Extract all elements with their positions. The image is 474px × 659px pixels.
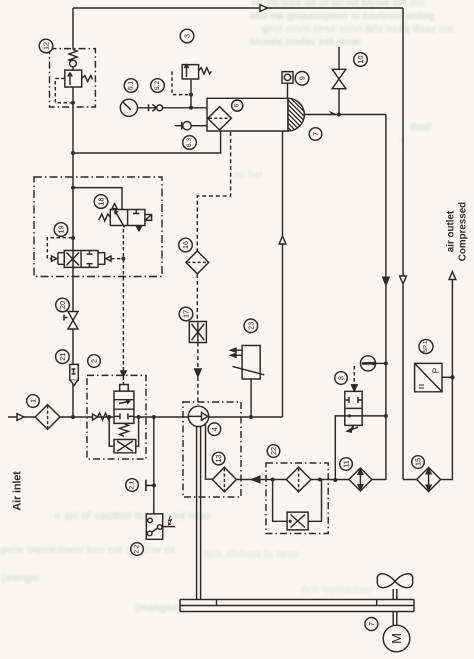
- svg-text:air outlet: air outlet: [446, 210, 457, 252]
- wire right riser x=403: [400, 8, 407, 480]
- ball: [70, 60, 77, 67]
- exhaust below: [351, 425, 358, 431]
- wire purge return y=153: [71, 131, 221, 155]
- enclosure 18/19 control block: [34, 177, 162, 277]
- check valve 6.2: [149, 104, 163, 111]
- closed position square with X: [114, 440, 136, 453]
- svg-text:16: 16: [181, 241, 190, 249]
- enclosure oil cooler 22: [266, 463, 328, 534]
- label 3: [180, 29, 194, 43]
- pilot box left: [58, 253, 64, 265]
- label 7: [309, 128, 322, 141]
- wires valve 8 ports: [333, 414, 388, 482]
- shut-off valve 20: [64, 312, 78, 330]
- svg-text:6.1: 6.1: [128, 81, 135, 90]
- relief valve R12 assembly: [50, 49, 96, 107]
- bypass restrictor of cooler: [273, 480, 322, 530]
- oil cooler circuit wire y=480: [236, 476, 386, 482]
- baseplate: [180, 600, 414, 612]
- motor shaft: [393, 612, 397, 626]
- label 17: [179, 307, 193, 321]
- label 16: [179, 238, 193, 252]
- svg-text:22: 22: [269, 447, 278, 455]
- blocked ports right square: [87, 251, 93, 268]
- wire to outlet filter 15: [403, 272, 456, 480]
- label 6.2: [151, 79, 165, 93]
- purge restrictor 17: [189, 322, 206, 343]
- seat + spring at valve 2 entry: [93, 414, 98, 420]
- svg-text:6: 6: [234, 103, 241, 107]
- label 13: [212, 452, 225, 465]
- temperature pilot 8 sensor bulb: [360, 356, 388, 371]
- label 23: [244, 319, 258, 333]
- svg-text:P: P: [432, 367, 441, 373]
- svg-text:2: 2: [90, 359, 99, 363]
- valve 19 (blow-off valve): [47, 236, 123, 267]
- compressor 4: [188, 406, 208, 426]
- oil return into compressor: [206, 424, 213, 479]
- node air inlet text: [12, 471, 24, 511]
- check valve 6.3: [175, 122, 207, 130]
- pilot wire valve18 to intake valve 2: [121, 229, 126, 384]
- main valve square: [114, 409, 134, 423]
- node 2.1 branch: [146, 417, 156, 514]
- enclosure 12: [50, 49, 96, 107]
- spring left: [99, 214, 111, 221]
- svg-text:3: 3: [183, 34, 192, 38]
- filter 1 (inlet filter): [35, 405, 60, 430]
- dryer vessel: [207, 98, 288, 131]
- spring right: [82, 76, 93, 82]
- fan: [377, 574, 412, 600]
- pressure regulator 3: [172, 64, 211, 108]
- svg-text:2.2: 2.2: [134, 544, 141, 553]
- svg-text:Compressed: Compressed: [458, 202, 469, 261]
- valve 18 (3/2 solenoid valve): [99, 204, 152, 231]
- pressure transmitter 5P.1: [415, 363, 455, 391]
- label 18: [94, 195, 108, 209]
- spring: [69, 50, 77, 62]
- label 6: [232, 100, 243, 111]
- bleed-through text from reverse page: [252, 0, 425, 9]
- svg-text:7: 7: [311, 132, 320, 136]
- svg-text:5P.1: 5P.1: [423, 341, 429, 352]
- svg-text:13: 13: [214, 455, 223, 463]
- svg-text:15: 15: [414, 458, 423, 466]
- label 6.3: [183, 136, 197, 150]
- exhaust triangle top: [112, 204, 117, 209]
- solenoid right: [145, 215, 152, 221]
- filter/drain 21: [70, 364, 79, 385]
- svg-text:4: 4: [210, 427, 219, 431]
- pilot line from valve 18: [111, 258, 123, 260]
- label 2.1: [126, 479, 139, 492]
- pressure switch 2.2: [146, 514, 175, 539]
- enclosure intake valve 2: [87, 375, 146, 459]
- top square blocked ports: [345, 397, 362, 403]
- wire riser to dryer (x=282.5): [279, 131, 286, 417]
- wire valve2 to compressor: [134, 415, 189, 419]
- label 6.1: [124, 79, 138, 93]
- label 22: [267, 445, 280, 458]
- purge wire restrictor to compressor: [195, 343, 201, 406]
- svg-text:6.2: 6.2: [154, 81, 161, 90]
- svg-text:19: 19: [57, 226, 66, 234]
- pilot cap: [120, 385, 129, 392]
- enclosure compressor unit: [183, 402, 241, 497]
- svg-text:8: 8: [337, 376, 346, 380]
- oil filter 13: [212, 467, 236, 492]
- label 5P.1: [419, 340, 433, 354]
- motor M: [383, 625, 410, 652]
- temperature sensor 9: [282, 72, 293, 99]
- wire top header from blow-off line to right side: [73, 5, 403, 12]
- purge wire from dryer (dashed): [197, 132, 230, 251]
- pilot line from x73: [47, 238, 72, 259]
- svg-text:18: 18: [97, 198, 106, 206]
- label 10: [354, 53, 368, 67]
- drive shaft compressor to baseplate: [197, 427, 201, 600]
- svg-text:21: 21: [58, 353, 67, 361]
- purge filter 16: [186, 251, 209, 274]
- actuator cylinder: [114, 391, 134, 409]
- svg-text:12: 12: [42, 42, 51, 50]
- wire inlet to valve 2: [60, 413, 114, 420]
- fan drive control 23: [231, 346, 265, 418]
- svg-text:M: M: [389, 633, 404, 644]
- exhaust bottom filled: [136, 226, 142, 231]
- spring below: [119, 423, 128, 436]
- svg-text:2.1: 2.1: [129, 480, 136, 489]
- shut-off valve 10: [332, 47, 346, 115]
- outlet filter 15: [417, 468, 441, 492]
- closed port right square: [133, 210, 139, 214]
- dryer cartridge 6: [208, 107, 232, 130]
- intake valve 2: [109, 385, 140, 453]
- label 20: [56, 298, 70, 312]
- svg-text:1: 1: [29, 399, 38, 403]
- oil cooler element 22: [286, 467, 311, 492]
- label 21: [56, 350, 70, 364]
- label 4: [208, 423, 221, 436]
- bottom square passage: [345, 415, 362, 417]
- label 11: [340, 458, 353, 471]
- node compressed air outlet text: [446, 202, 469, 261]
- svg-text:Air inlet: Air inlet: [12, 471, 24, 511]
- pressure gauge 6.1: [120, 99, 137, 116]
- wire air inlet: [8, 414, 35, 421]
- aftercooler 7 (hatched dome): [288, 98, 304, 131]
- X in left square: [67, 253, 80, 266]
- valve body 12: [65, 70, 82, 87]
- svg-text:11: 11: [342, 460, 351, 467]
- label 12: [39, 39, 53, 53]
- label 2: [88, 355, 101, 368]
- svg-text:23: 23: [246, 322, 255, 330]
- label 2.2: [131, 543, 144, 556]
- thermostatic valve 8: [345, 366, 362, 432]
- svg-text:10: 10: [356, 56, 365, 64]
- flow arrow left square: [115, 211, 125, 228]
- wire branch to valve 18: [71, 186, 122, 210]
- purge wire filter to restrictor: [196, 274, 198, 322]
- label 19: [54, 223, 68, 237]
- svg-text:6.3: 6.3: [186, 138, 193, 147]
- wire gauge to dryer: [138, 106, 208, 110]
- side connections: [109, 417, 138, 446]
- air/oil separator filter 11: [349, 468, 372, 491]
- label 1: [27, 395, 40, 408]
- node: [71, 101, 75, 105]
- pilot box right: [98, 253, 105, 265]
- label 9: [295, 72, 309, 86]
- wire main down-comer x=385.9: [383, 115, 389, 481]
- svg-text:7: 7: [367, 622, 376, 626]
- label 15: [412, 456, 425, 469]
- svg-text:20: 20: [58, 301, 67, 309]
- svg-text:9: 9: [298, 76, 307, 80]
- wire aftercooler outlet: [304, 111, 386, 117]
- pilot line dashed: [55, 79, 71, 103]
- label 7 fan group: [365, 618, 378, 631]
- svg-text:17: 17: [182, 310, 191, 318]
- label 8: [335, 372, 348, 385]
- wire left main vertical (blow-off / unloading line x=73): [72, 8, 74, 417]
- wire compressor outlet to dryer riser: [209, 415, 283, 419]
